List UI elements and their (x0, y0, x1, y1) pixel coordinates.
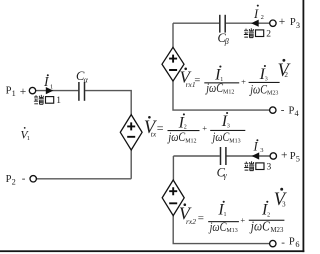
svg-text:=: = (198, 212, 204, 224)
svg-text:jωC: jωC (249, 219, 271, 234)
svg-text:I: I (43, 74, 50, 89)
svg-text:M23: M23 (267, 91, 278, 97)
svg-text:P: P (289, 237, 295, 248)
svg-text:I: I (253, 140, 259, 154)
svg-text:3: 3 (260, 147, 263, 154)
svg-text:2: 2 (267, 212, 270, 218)
svg-text:=: = (194, 75, 200, 86)
svg-text:5: 5 (296, 154, 300, 163)
svg-text:M13: M13 (229, 138, 240, 144)
svg-text:=: = (157, 121, 164, 135)
svg-text:1: 1 (224, 212, 227, 218)
svg-text:M13: M13 (226, 228, 237, 234)
svg-text:3: 3 (296, 21, 300, 30)
svg-text:+: + (281, 150, 288, 162)
svg-text:+: + (241, 76, 246, 86)
svg-text:-: - (281, 104, 285, 116)
svg-text:2: 2 (284, 71, 288, 79)
svg-text:I: I (253, 7, 259, 21)
svg-text:V: V (274, 190, 288, 210)
svg-text:M12: M12 (223, 89, 234, 95)
svg-text:6: 6 (295, 240, 299, 249)
svg-text:rx2: rx2 (186, 217, 196, 226)
svg-text:-: - (22, 173, 26, 185)
svg-text:3: 3 (267, 163, 272, 173)
svg-text:4: 4 (295, 109, 300, 118)
svg-text:M12: M12 (185, 138, 196, 144)
svg-text:jωC: jωC (211, 130, 230, 144)
svg-text:+: + (202, 123, 207, 133)
svg-text:jωC: jωC (167, 130, 186, 144)
svg-text:3: 3 (227, 123, 230, 129)
svg-text:+: + (240, 215, 245, 225)
svg-text:2: 2 (12, 177, 16, 186)
svg-text:-: - (281, 236, 285, 248)
svg-text:jωC: jωC (208, 220, 227, 234)
svg-text:β: β (224, 37, 229, 46)
svg-text:3: 3 (282, 201, 286, 209)
svg-text:M23: M23 (271, 227, 284, 234)
svg-text:jωC: jωC (249, 82, 268, 96)
svg-text:1: 1 (27, 135, 30, 142)
svg-text:γ: γ (224, 171, 228, 180)
svg-text:1: 1 (50, 83, 53, 90)
svg-text:1: 1 (56, 96, 61, 106)
svg-text:jωC: jωC (205, 81, 224, 95)
svg-text:α: α (84, 75, 89, 84)
svg-text:2: 2 (266, 30, 271, 40)
svg-text:2: 2 (261, 14, 264, 21)
svg-text:1: 1 (12, 89, 16, 98)
svg-text:+: + (20, 86, 27, 98)
svg-text:+: + (279, 16, 286, 28)
